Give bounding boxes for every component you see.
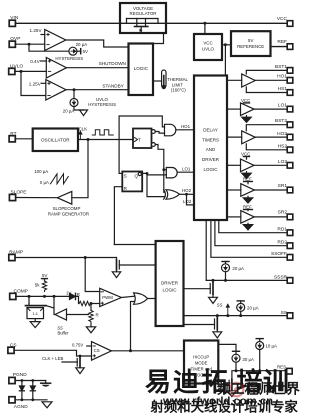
svg-text:0.75V: 0.75V — [72, 342, 83, 347]
pin RES — [277, 364, 292, 374]
pin SS — [281, 310, 293, 319]
wire STANDBY — [66, 89, 129, 91]
node RAMP to PWM — [84, 256, 87, 259]
svg-text:射频和天线设计培训专家: 射频和天线设计培训专家 — [150, 399, 299, 415]
wire PGND rail — [15, 380, 46, 382]
pin OVP — [9, 36, 20, 47]
svg-text:RT: RT — [10, 131, 16, 137]
ground SSSR fet — [209, 297, 218, 303]
T flip-flop U-FF1 — [133, 129, 155, 149]
wire regulator to logic corner — [153, 33, 164, 44]
pin HO1 — [277, 74, 293, 84]
wire AGND rail — [15, 399, 47, 401]
svg-text:频工程师世界: 频工程师世界 — [217, 381, 300, 397]
current source 20uA OVP hysteresis — [55, 42, 88, 61]
supply tick 5V — [42, 278, 48, 280]
wire UVLO to comparators — [15, 70, 46, 72]
svg-text:30 µA: 30 µA — [242, 357, 254, 362]
wire SLOPE — [16, 197, 58, 199]
svg-text:REF: REF — [243, 204, 252, 209]
pin SR2 — [278, 209, 293, 219]
svg-text:REF: REF — [277, 39, 287, 45]
svg-text:1.25V: 1.25V — [29, 81, 42, 86]
svg-text:RD2: RD2 — [277, 239, 287, 245]
pin HS2 — [278, 143, 293, 152]
op-amp CS comparator — [92, 342, 112, 361]
svg-text:LO2: LO2 — [183, 199, 192, 204]
svg-text:0.4V: 0.4V — [30, 59, 40, 64]
svg-text:5V: 5V — [83, 49, 88, 54]
ground SS fet — [213, 332, 222, 338]
svg-text:1:1: 1:1 — [32, 311, 38, 316]
diode D1 PGND-AGND — [19, 379, 24, 401]
svg-text:100 µA: 100 µA — [34, 169, 48, 174]
pin SSSR — [274, 275, 293, 284]
pin PGND — [9, 372, 27, 384]
arrow SS charge — [226, 304, 229, 315]
wire frame Q to AND1 top — [119, 116, 164, 173]
transistor Q-SS discharge — [184, 314, 219, 332]
sawtooth glyph — [51, 174, 69, 184]
pin LO1 — [278, 102, 293, 112]
pin VCC — [277, 16, 293, 26]
svg-text:CS: CS — [94, 348, 100, 353]
5V reference box — [231, 31, 271, 56]
wire slope generator to CLK — [72, 140, 88, 198]
pin UVLO — [9, 63, 24, 74]
svg-text:R: R — [96, 313, 99, 318]
wire CLK — [78, 139, 133, 141]
wire OR to driver logic — [148, 298, 156, 300]
svg-text:AND: AND — [206, 147, 216, 152]
svg-text:SLOPE: SLOPE — [11, 190, 27, 196]
svg-text:SR2: SR2 — [278, 209, 288, 215]
wire RD2 from delay box — [215, 220, 287, 246]
wire UVLO branch down to 1.25V comparator — [21, 71, 46, 95]
svg-text:HO2: HO2 — [182, 188, 192, 193]
driver U-LO1 — [227, 98, 287, 122]
wire 0.4V to + input — [41, 60, 47, 62]
transistor Q-RAMP discharge — [117, 258, 156, 272]
wire RAMP — [15, 257, 117, 259]
wire Qbar branch to AND2 — [164, 169, 167, 171]
wire PWM out to OR — [121, 296, 134, 297]
wire SSOFF from delay box — [211, 220, 287, 257]
LOGIC box — [129, 44, 154, 96]
pin RD1 — [277, 226, 292, 235]
pin HS1 — [278, 86, 293, 95]
ground PGND earth — [41, 381, 51, 387]
ground mirror — [30, 322, 40, 328]
pin SR1 — [278, 183, 293, 193]
wire 1.25V to + input — [42, 82, 46, 84]
ground RES fet — [228, 391, 237, 397]
wire 5V reference to REF pin — [271, 46, 288, 48]
driver logic box — [156, 241, 184, 326]
svg-text:SHUTDOWN: SHUTDOWN — [99, 61, 126, 66]
svg-text:HICCUP: HICCUP — [193, 354, 209, 359]
hiccup mode timer box — [184, 341, 218, 384]
op-amp 1.25V UVLO comparator — [46, 80, 66, 100]
svg-text:5k: 5k — [35, 283, 40, 288]
pin SLOPE — [9, 190, 26, 201]
wire CS comparator output — [111, 350, 184, 352]
SR latch U-FF2 — [122, 172, 142, 192]
transistor Q-LEB clamp — [62, 355, 81, 368]
svg-text:RAMP GENERATOR: RAMP GENERATOR — [48, 211, 89, 216]
svg-text:BST1: BST1 — [275, 64, 287, 70]
pin REF — [277, 39, 292, 49]
wire AND2 to delay box — [177, 171, 194, 173]
pin BST1 — [275, 64, 293, 73]
svg-text:REFERENCE: REFERENCE — [237, 44, 264, 49]
svg-text:LOGIC: LOGIC — [134, 66, 149, 71]
svg-text:RD1: RD1 — [277, 226, 287, 232]
watermark emblem — [230, 383, 244, 397]
driver U-HO1 — [227, 70, 287, 92]
svg-text:迪: 迪 — [173, 367, 199, 397]
svg-text:20 µA: 20 µA — [232, 266, 244, 271]
pin VIN — [9, 15, 19, 26]
buffer SS — [55, 309, 89, 336]
svg-text:LOGIC: LOGIC — [162, 288, 177, 293]
node COMP buffer branch — [53, 295, 56, 298]
svg-text:SLOPECOMP: SLOPECOMP — [53, 206, 81, 211]
ground RAMP fet — [112, 272, 120, 278]
wire RES line — [232, 371, 287, 380]
svg-text:DRIVER: DRIVER — [202, 157, 220, 162]
VCC UVLO box — [194, 34, 222, 60]
svg-text:0 µA: 0 µA — [40, 180, 49, 185]
wire SS line — [184, 315, 288, 317]
wire OVP comparator output to logic — [66, 40, 129, 47]
wire buffer output up to COMP — [53, 296, 55, 314]
op-amp OVP comparator — [45, 30, 66, 51]
node OVP feedback — [28, 43, 31, 46]
svg-text:HO2: HO2 — [277, 131, 287, 137]
pin HO2 — [277, 131, 293, 140]
wire latch Q to gates — [142, 173, 164, 196]
and-gate A2 LO1 — [166, 168, 177, 178]
wire OVP to comparator — [15, 43, 44, 45]
pin RAMP — [9, 249, 23, 260]
svg-text:COMP: COMP — [14, 289, 28, 295]
svg-text:MODE: MODE — [195, 360, 208, 365]
svg-text:VCC: VCC — [277, 16, 288, 22]
svg-text:SSSR: SSSR — [274, 275, 288, 281]
wire RD1 from delay box — [219, 220, 287, 233]
svg-text:UVLO: UVLO — [202, 46, 215, 51]
svg-text:CLK + LEB: CLK + LEB — [42, 356, 64, 361]
driver U-LO2 — [227, 152, 287, 179]
or-gate G-PWM — [134, 293, 148, 304]
wire R-latch feed to driver logic — [114, 244, 155, 246]
op-amp PWM comparator — [100, 288, 122, 306]
wire SSSR vertical from delay box — [205, 220, 207, 280]
watermark big red text — [145, 367, 300, 415]
wire hiccup to 30uA — [218, 344, 236, 351]
comparator input polarity marks — [47, 33, 104, 357]
wire R input from below — [114, 187, 122, 245]
node VCC junction — [203, 22, 206, 25]
wire XOR to delay HO2 — [180, 193, 194, 195]
pin AGND — [9, 397, 28, 410]
svg-text:VIN: VIN — [10, 15, 19, 21]
thermometer thermal limit — [153, 70, 188, 93]
svg-text:PWM: PWM — [102, 295, 113, 300]
wire LO2 branch — [187, 194, 195, 205]
svg-text:SR1: SR1 — [278, 183, 288, 189]
node CS out — [129, 349, 132, 352]
svg-text:LOGIC: LOGIC — [203, 167, 218, 172]
svg-text:SS: SS — [281, 310, 287, 316]
node LO2 branch — [185, 193, 188, 196]
wire R to PWM + input — [91, 303, 100, 305]
pin SSOFF — [271, 251, 293, 260]
driver U-HO2 — [227, 125, 287, 150]
wire CS comparator to OR — [131, 302, 134, 351]
wire COMP — [16, 295, 70, 297]
svg-text:Buffer: Buffer — [57, 331, 69, 336]
pin RD2 — [277, 239, 292, 248]
svg-text:HYSTERESIS: HYSTERESIS — [55, 56, 83, 61]
current source 30uA — [232, 351, 254, 370]
current source 20uA SSSR — [222, 262, 245, 281]
svg-text:20 µA: 20 µA — [76, 42, 88, 47]
clk edge arrow — [79, 131, 82, 139]
svg-text:LO1: LO1 — [278, 102, 287, 108]
oscillator box — [33, 129, 78, 152]
svg-text:5V: 5V — [248, 38, 253, 43]
op-amp 0.4V comparator — [46, 58, 66, 79]
wire OVP feedback to hysteresis source — [29, 44, 69, 51]
node standby hysteresis tap — [73, 88, 76, 91]
wire Q to AND1 bottom — [155, 132, 164, 134]
wire SHUTDOWN — [67, 67, 129, 69]
svg-text:STANDBY: STANDBY — [102, 84, 123, 89]
slopecomp buffer triangle — [57, 191, 72, 204]
wire VCC to VCC UVLO — [204, 23, 206, 34]
resistor R-5k — [42, 281, 46, 292]
ground LEB fet — [76, 368, 84, 374]
transistor Q-RES discharge — [218, 379, 232, 391]
clock waveform glyph — [92, 130, 113, 135]
wire VIN to voltage regulator — [15, 22, 120, 24]
svg-text:HYSTERESIS: HYSTERESIS — [88, 102, 116, 107]
ground AGND — [42, 402, 52, 408]
svg-text:HS1: HS1 — [278, 86, 288, 92]
svg-text:TIMERS: TIMERS — [202, 137, 219, 142]
current mirror Q1 Q2 1:1 — [26, 296, 55, 321]
pin CS — [8, 343, 17, 354]
pin BST2 — [275, 118, 293, 128]
node 5k to COMP — [43, 295, 46, 298]
svg-text:DRIVER: DRIVER — [161, 281, 179, 286]
svg-text:5V: 5V — [42, 273, 47, 278]
wire 1.25V to + input — [41, 34, 45, 36]
svg-text:DELAY: DELAY — [203, 128, 217, 133]
wire RAMP to PWM inverting input — [85, 258, 100, 292]
wire AND1 to delay box — [177, 129, 194, 131]
svg-text:CS: CS — [10, 343, 17, 349]
wire S input — [119, 172, 122, 174]
svg-text:SS: SS — [217, 303, 223, 308]
ground R shunt — [86, 327, 95, 333]
pin LO2 — [278, 159, 293, 168]
diode D2 PGND-AGND — [30, 379, 35, 401]
svg-text:SSOFF: SSOFF — [271, 251, 287, 257]
pass transistor inside regulator — [120, 19, 166, 34]
svg-text:OVP: OVP — [10, 36, 20, 42]
svg-text:LO2: LO2 — [278, 159, 287, 165]
node R divider — [90, 302, 93, 305]
svg-text:10 µA: 10 µA — [265, 343, 277, 348]
svg-text:R: R — [77, 292, 80, 297]
wire down to delay block supply — [224, 45, 226, 76]
wire 0.75V to - input — [87, 345, 92, 347]
driver U-SR1 — [227, 176, 287, 203]
svg-text:1.25V: 1.25V — [30, 28, 43, 33]
svg-text:(160°C): (160°C) — [171, 88, 186, 93]
svg-text:20 µA: 20 µA — [63, 108, 75, 113]
node CLK to slope generator — [87, 138, 90, 141]
pin COMP — [10, 289, 28, 300]
wire regulator to VCC — [166, 22, 287, 24]
svg-text:S: S — [124, 174, 127, 179]
voltage regulator box — [120, 3, 166, 33]
wire RT to oscillator — [15, 138, 32, 140]
driver U-SR2 — [227, 204, 287, 230]
diode 1V offset — [66, 291, 79, 304]
svg-text:PGND: PGND — [13, 372, 27, 378]
svg-text:易: 易 — [145, 367, 171, 397]
current source 20uA SS — [237, 301, 259, 316]
svg-text:20 µA: 20 µA — [247, 306, 259, 311]
resistor R shunt — [89, 304, 99, 327]
svg-text:CLK: CLK — [79, 126, 88, 131]
pin RT — [9, 131, 16, 142]
node at 5V ref input — [224, 43, 227, 46]
and-gate A1 HO1 — [165, 124, 176, 136]
svg-text:HO1: HO1 — [181, 124, 191, 129]
node COMP mirror branch — [28, 295, 31, 298]
svg-text:VCC: VCC — [203, 40, 212, 45]
svg-text:REGULATOR: REGULATOR — [130, 11, 157, 16]
svg-text:REF: REF — [243, 176, 252, 181]
wire SSSR line — [206, 279, 287, 281]
wire VCC UVLO to 5V reference — [222, 44, 231, 46]
current source 10uA — [256, 339, 277, 371]
wire CS — [14, 350, 91, 356]
ground UVLO hysteresis — [80, 110, 88, 116]
wire Qbar down — [155, 145, 164, 193]
delay timers and driver logic box — [194, 76, 227, 221]
svg-text:BST2: BST2 — [275, 118, 287, 124]
svg-text:T: T — [138, 137, 141, 142]
svg-text:UVLO: UVLO — [10, 63, 23, 69]
node UVLO branch — [20, 70, 23, 73]
svg-text:HO1: HO1 — [277, 74, 287, 80]
svg-text:HS2: HS2 — [278, 143, 288, 149]
transistor Q-SSSR discharge — [184, 279, 215, 297]
svg-text:OSCILLATOR: OSCILLATOR — [41, 138, 70, 143]
svg-text:RAMP: RAMP — [9, 249, 23, 255]
svg-text:AGND: AGND — [14, 404, 28, 410]
xor-gate X1 — [166, 190, 180, 200]
current source 20uA UVLO hysteresis — [63, 90, 84, 114]
svg-text:LO1: LO1 — [182, 166, 191, 171]
svg-text:R: R — [124, 186, 127, 191]
resistor R series — [79, 301, 91, 305]
